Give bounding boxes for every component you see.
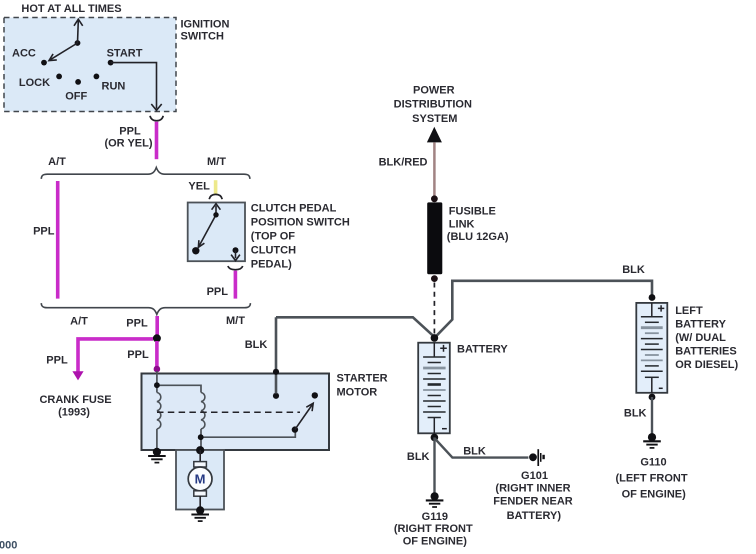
- svg-text:ACC: ACC: [12, 48, 36, 60]
- node starter main feed: [196, 446, 204, 454]
- svg-text:BATTERY): BATTERY): [507, 510, 562, 522]
- battery left B2: [636, 303, 667, 393]
- svg-text:A/T: A/T: [48, 156, 66, 168]
- label FUSIBLE LINK (BLU 12GA): [447, 206, 509, 243]
- dashed wire fusible link to battery: [433, 283, 435, 335]
- connector arc above clutch switch: [209, 194, 222, 199]
- svg-text:POWER: POWER: [413, 85, 455, 97]
- svg-text:RUN: RUN: [102, 80, 126, 92]
- clutch switch output arrow down: [231, 250, 240, 260]
- clutch switch contacts: [192, 212, 238, 254]
- svg-text:PPL: PPL: [127, 349, 149, 361]
- svg-text:SYSTEM: SYSTEM: [412, 113, 457, 125]
- ground symbol G119: [426, 500, 444, 507]
- svg-text:PPL: PPL: [119, 126, 141, 138]
- wire inside starter from PPL: [157, 371, 201, 393]
- label STARTER MOTOR: [337, 373, 388, 399]
- battery main: [418, 343, 450, 434]
- solenoid contact arm: [295, 403, 313, 429]
- solenoid contact upper: [312, 392, 318, 398]
- starter motor box: [142, 374, 330, 451]
- svg-text:(TOP OF: (TOP OF: [251, 231, 295, 243]
- svg-text:M: M: [195, 472, 206, 487]
- ignition position labels: [12, 48, 143, 103]
- svg-text:CRANK FUSE: CRANK FUSE: [39, 394, 111, 406]
- svg-text:OR DIESEL): OR DIESEL): [675, 359, 738, 371]
- svg-text:START: START: [107, 48, 143, 60]
- node battery negative: [431, 434, 439, 442]
- svg-text:000: 000: [0, 540, 17, 552]
- wire PPL into starter: [155, 341, 159, 367]
- svg-text:PEDAL): PEDAL): [251, 259, 292, 271]
- wire BLK battery to G101: [435, 439, 529, 458]
- svg-text:BLK: BLK: [407, 451, 430, 463]
- label G119 (RIGHT FRONT OF ENGINE): [394, 511, 473, 548]
- node BLK at starter box edge: [273, 369, 279, 375]
- brace merging A/T and M/T: [41, 303, 250, 314]
- ignition arrow to HOT feed: [74, 19, 83, 43]
- wire PPL branch to crank fuse: [78, 339, 153, 372]
- connector arc below clutch switch: [228, 266, 243, 270]
- wire hold-in coil to ground: [156, 429, 158, 451]
- ground node left coil: [153, 448, 161, 456]
- wire motor to ground: [199, 496, 201, 509]
- wire PPL from ignition: [155, 122, 159, 160]
- ground symbol motor: [191, 515, 209, 522]
- wire PPL below clutch switch: [234, 271, 238, 299]
- wire BLK/RED: [433, 142, 436, 196]
- svg-text:CLUTCH: CLUTCH: [251, 245, 296, 257]
- wire from START down out of box: [111, 63, 162, 111]
- battery contact node: [273, 393, 279, 399]
- arrow to power distribution: [427, 127, 442, 143]
- label IGNITION SWITCH: [181, 19, 230, 43]
- svg-text:OF ENGINE): OF ENGINE): [622, 488, 687, 500]
- svg-text:PPL: PPL: [46, 354, 68, 366]
- ground G101 symbol: [529, 449, 545, 466]
- solenoid pull-in coil: [201, 393, 205, 429]
- ground node motor: [196, 506, 204, 514]
- svg-text:LOCK: LOCK: [19, 77, 50, 89]
- svg-text:OF ENGINE): OF ENGINE): [403, 536, 468, 548]
- svg-text:LINK: LINK: [449, 218, 475, 230]
- svg-text:SWITCH: SWITCH: [181, 31, 224, 43]
- label POWER DISTRIBUTION SYSTEM: [394, 85, 472, 125]
- ignition rotor arm toward ACC: [49, 43, 78, 61]
- dashed solenoid linkage: [157, 411, 300, 413]
- wire BLK battery to G119: [433, 437, 435, 493]
- wire PPL A/T branch: [56, 181, 60, 299]
- svg-text:(1993): (1993): [58, 407, 90, 419]
- label CLUTCH PEDAL POSITION SWITCH: [251, 203, 350, 271]
- ground symbol G110: [643, 441, 661, 448]
- svg-text:(RIGHT INNER: (RIGHT INNER: [495, 482, 570, 494]
- svg-text:BLK: BLK: [624, 407, 647, 419]
- label G101 (RIGHT INNER FENDER NEAR BATTERY): [493, 470, 573, 522]
- svg-text:G110: G110: [640, 457, 666, 469]
- label PPL (OR YEL): [104, 126, 152, 150]
- svg-text:CLUTCH PEDAL: CLUTCH PEDAL: [251, 203, 337, 215]
- node fusible link bottom: [431, 275, 438, 282]
- svg-text:PPL: PPL: [33, 225, 55, 237]
- motor enclosure box: [176, 450, 224, 510]
- ground symbol starter solenoid: [148, 456, 166, 463]
- brace splitting A/T and M/T: [41, 168, 250, 179]
- svg-text:BATTERY: BATTERY: [675, 319, 726, 331]
- solenoid hold-in coil: [157, 393, 161, 429]
- svg-text:POSITION SWITCH: POSITION SWITCH: [251, 217, 350, 229]
- motor M1: [188, 462, 212, 497]
- svg-text:BLK: BLK: [245, 339, 268, 351]
- connector arc below ignition switch: [150, 116, 163, 121]
- svg-text:M/T: M/T: [207, 156, 226, 168]
- svg-text:MOTOR: MOTOR: [337, 386, 378, 398]
- svg-text:PPL: PPL: [126, 318, 148, 330]
- svg-text:BATTERY: BATTERY: [457, 344, 508, 356]
- svg-text:LEFT: LEFT: [675, 305, 703, 317]
- svg-text:OFF: OFF: [65, 91, 87, 103]
- ignition switch rotor pivot and positions: [41, 40, 113, 85]
- svg-text:BLK: BLK: [463, 446, 486, 458]
- svg-text:YEL: YEL: [188, 181, 210, 193]
- svg-text:(BLU 12GA): (BLU 12GA): [447, 231, 509, 243]
- svg-text:DISTRIBUTION: DISTRIBUTION: [394, 98, 472, 110]
- junction node: [153, 334, 161, 342]
- wire BLK left battery to junction: [435, 281, 652, 338]
- svg-text:FUSIBLE: FUSIBLE: [449, 206, 496, 218]
- svg-text:A/T: A/T: [70, 316, 88, 328]
- svg-text:M/T: M/T: [226, 315, 245, 327]
- crank fuse arrow: [72, 371, 83, 380]
- wire BLK left battery to G110: [651, 397, 653, 434]
- wire pull-in coil to contact: [201, 429, 296, 450]
- fusible link F1: [427, 202, 442, 274]
- ground node G110: [648, 433, 656, 441]
- node left battery positive: [649, 294, 656, 301]
- solenoid contact pivot: [292, 426, 298, 432]
- svg-text:BLK: BLK: [622, 264, 645, 276]
- connector node PPL at starter box: [154, 366, 161, 373]
- ground node G119: [431, 492, 439, 500]
- svg-text:(RIGHT FRONT: (RIGHT FRONT: [394, 523, 473, 535]
- label LEFT BATTERY (W/ DUAL BATTERIES OR DIESEL): [675, 305, 738, 371]
- svg-text:(W/ DUAL: (W/ DUAL: [675, 332, 726, 344]
- svg-text:BLK/RED: BLK/RED: [379, 157, 428, 169]
- node pull-in coil bottom: [198, 434, 204, 440]
- svg-text:(LEFT FRONT: (LEFT FRONT: [615, 472, 687, 484]
- svg-text:HOT AT ALL TIMES: HOT AT ALL TIMES: [21, 3, 121, 15]
- svg-text:STARTER: STARTER: [337, 373, 388, 385]
- svg-text:PPL: PPL: [207, 286, 229, 298]
- clutch pedal position switch box: [188, 203, 245, 262]
- svg-text:IGNITION: IGNITION: [181, 19, 230, 31]
- label CRANK FUSE (1993): [39, 394, 111, 419]
- wire to motor: [199, 450, 201, 462]
- ignition switch box: [4, 18, 176, 112]
- svg-text:G101: G101: [521, 470, 548, 482]
- label G110 (LEFT FRONT OF ENGINE): [615, 457, 687, 501]
- wire PPL merge stub: [155, 316, 159, 335]
- wire YEL: [214, 180, 218, 195]
- node battery positive: [431, 334, 439, 342]
- svg-text:(OR YEL): (OR YEL): [104, 138, 152, 150]
- svg-text:BATTERIES: BATTERIES: [675, 346, 737, 358]
- node left battery negative: [649, 394, 656, 401]
- svg-text:G119: G119: [422, 511, 448, 523]
- svg-text:FENDER NEAR: FENDER NEAR: [493, 496, 573, 508]
- clutch switch arm: [198, 215, 216, 248]
- clutch switch up arrow: [212, 204, 221, 215]
- node fusible link top: [431, 195, 438, 202]
- node solenoid feed: [154, 382, 160, 388]
- wire BLK battery feed into starter: [276, 317, 434, 393]
